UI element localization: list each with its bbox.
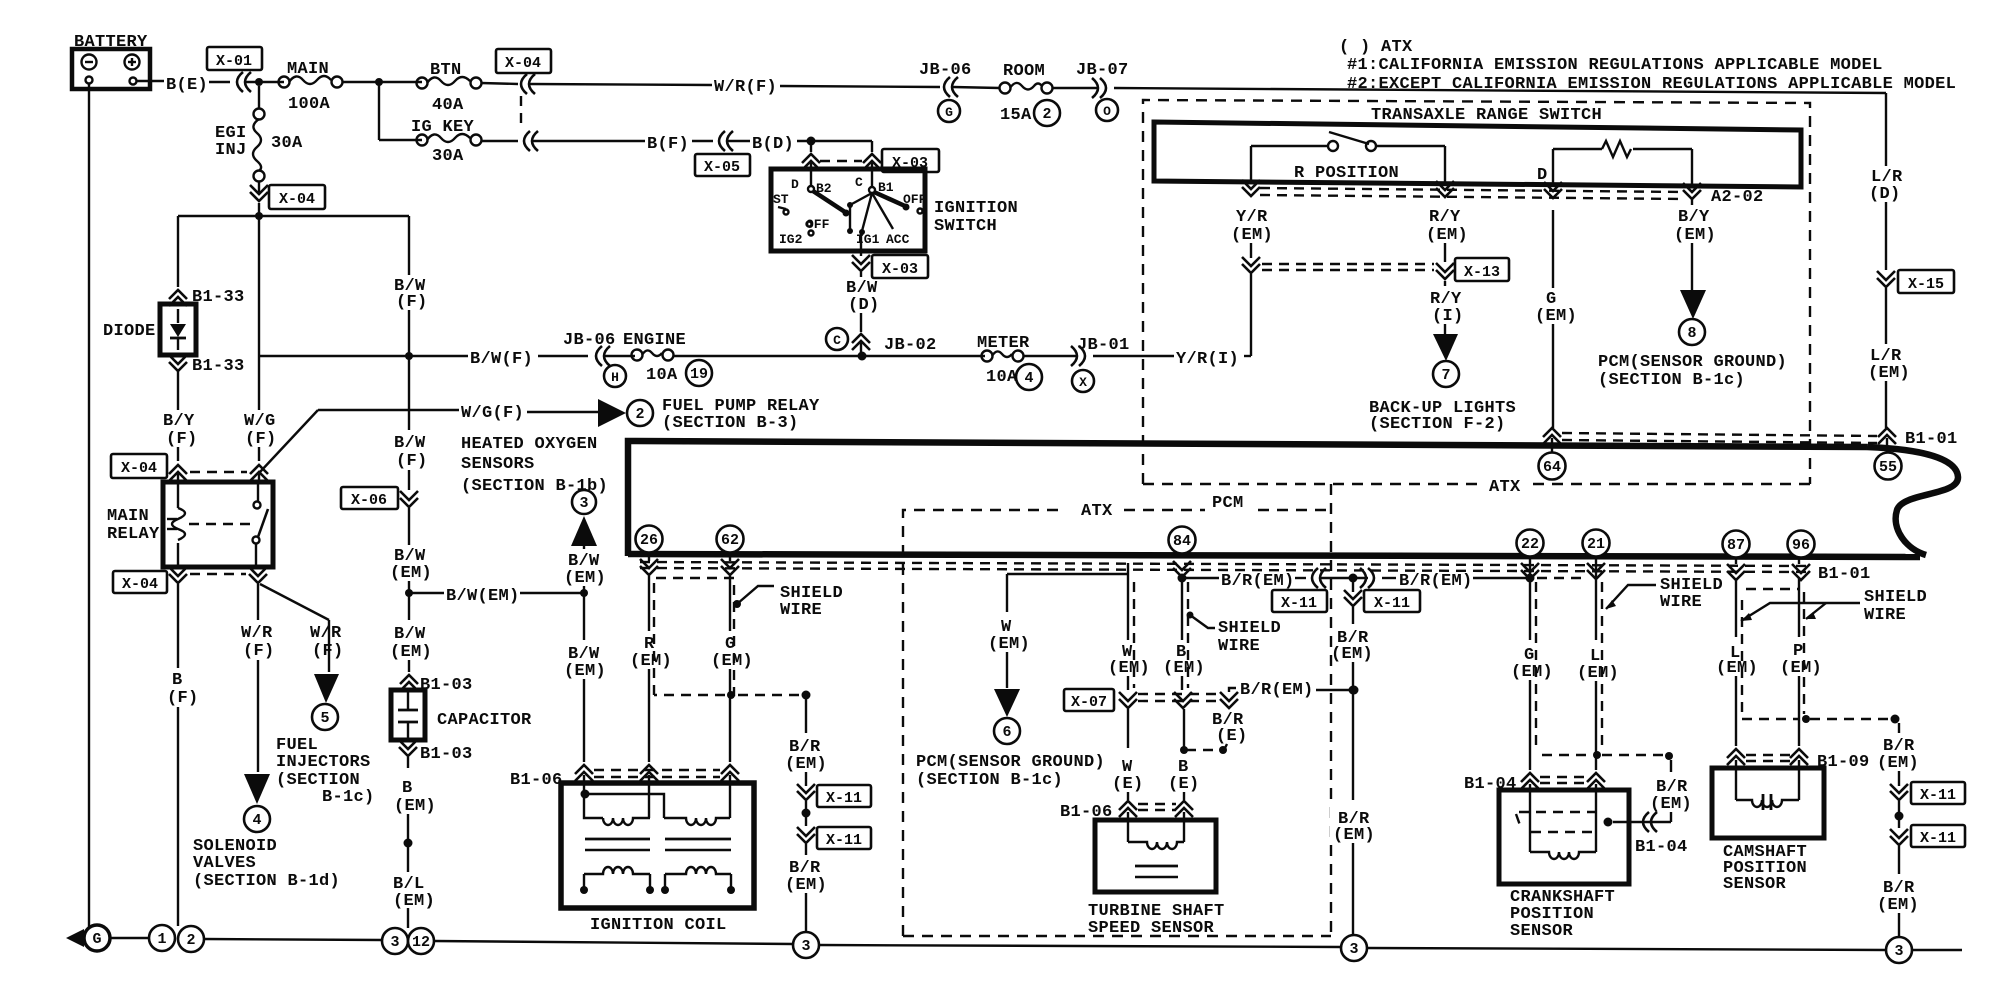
- svg-text:(SECTION B-3): (SECTION B-3): [662, 414, 799, 433]
- svg-text:(EM): (EM): [1868, 364, 1910, 383]
- svg-text:X-07: X-07: [1071, 694, 1107, 711]
- svg-text:SHIELD: SHIELD: [1864, 588, 1927, 607]
- svg-text:19: 19: [690, 366, 708, 383]
- svg-text:B/W(F): B/W(F): [470, 350, 533, 369]
- svg-text:CAPACITOR: CAPACITOR: [437, 711, 532, 730]
- svg-text:WIRE: WIRE: [780, 601, 822, 620]
- svg-text:96: 96: [1792, 537, 1810, 554]
- svg-text:RELAY: RELAY: [107, 525, 160, 544]
- svg-text:R/Y: R/Y: [1429, 208, 1461, 227]
- svg-text:B(D): B(D): [752, 135, 794, 154]
- svg-text:Y/R: Y/R: [1236, 208, 1268, 227]
- svg-text:(EM): (EM): [564, 569, 606, 588]
- svg-text:40A: 40A: [432, 96, 464, 115]
- svg-text:B/W(EM): B/W(EM): [446, 587, 520, 606]
- svg-text:(EM): (EM): [1577, 664, 1619, 683]
- svg-text:#2:EXCEPT CALIFORNIA EMISSION: #2:EXCEPT CALIFORNIA EMISSION REGULATION…: [1347, 75, 1956, 94]
- svg-text:(EM): (EM): [988, 635, 1030, 654]
- svg-text:SENSOR: SENSOR: [1723, 875, 1787, 894]
- svg-text:IG2: IG2: [779, 232, 803, 247]
- svg-text:HEATED OXYGEN: HEATED OXYGEN: [461, 435, 598, 454]
- svg-text:O: O: [1103, 104, 1111, 119]
- svg-text:X-05: X-05: [704, 159, 740, 176]
- svg-text:(F): (F): [166, 430, 198, 449]
- svg-text:(EM): (EM): [1877, 754, 1919, 773]
- svg-text:X-11: X-11: [1920, 830, 1956, 847]
- svg-text:IGNITION: IGNITION: [934, 199, 1018, 218]
- svg-text:B: B: [172, 671, 183, 690]
- svg-text:64: 64: [1543, 459, 1561, 476]
- svg-text:3: 3: [1349, 941, 1358, 958]
- svg-text:7: 7: [1441, 367, 1450, 384]
- svg-text:G: G: [945, 105, 953, 120]
- svg-text:WIRE: WIRE: [1660, 593, 1702, 612]
- svg-text:8: 8: [1687, 325, 1696, 342]
- svg-text:SPEED SENSOR: SPEED SENSOR: [1088, 919, 1215, 938]
- svg-text:B1-06: B1-06: [510, 771, 563, 790]
- svg-text:SHIELD: SHIELD: [1218, 619, 1281, 638]
- svg-text:(EM): (EM): [1650, 795, 1692, 814]
- svg-text:(EM): (EM): [393, 892, 435, 911]
- svg-text:(EM): (EM): [1877, 896, 1919, 915]
- svg-text:ATX: ATX: [1489, 478, 1521, 497]
- svg-text:15A: 15A: [1000, 106, 1032, 125]
- svg-text:10A: 10A: [646, 366, 678, 385]
- svg-text:2: 2: [186, 932, 195, 949]
- svg-text:(EM): (EM): [1331, 645, 1373, 664]
- svg-text:X-04: X-04: [279, 191, 315, 208]
- svg-text:(EM): (EM): [390, 643, 432, 662]
- svg-text:(F): (F): [243, 642, 275, 661]
- svg-text:Y/R(I): Y/R(I): [1176, 350, 1239, 369]
- svg-text:(F): (F): [312, 642, 344, 661]
- svg-text:X-15: X-15: [1908, 276, 1944, 293]
- svg-text:3: 3: [1894, 943, 1903, 960]
- svg-text:B1-04: B1-04: [1635, 838, 1688, 857]
- svg-text:DIODE: DIODE: [103, 322, 156, 341]
- svg-text:#1:CALIFORNIA EMISSION REGULAT: #1:CALIFORNIA EMISSION REGULATIONS APPLI…: [1347, 56, 1883, 75]
- svg-text:X-03: X-03: [882, 261, 918, 278]
- svg-text:A2-02: A2-02: [1711, 188, 1764, 207]
- svg-text:(EM): (EM): [1231, 226, 1273, 245]
- svg-text:(I): (I): [1432, 307, 1464, 326]
- svg-text:X-06: X-06: [351, 492, 387, 509]
- svg-text:D: D: [791, 177, 799, 192]
- svg-text:SENSORS: SENSORS: [461, 455, 535, 474]
- svg-text:84: 84: [1173, 533, 1191, 550]
- svg-text:2: 2: [1042, 106, 1051, 123]
- svg-text:B/R(EM): B/R(EM): [1399, 572, 1473, 591]
- svg-text:VALVES: VALVES: [193, 854, 256, 873]
- svg-text:ENGINE: ENGINE: [623, 331, 686, 350]
- svg-text:(EM): (EM): [390, 564, 432, 583]
- svg-text:6: 6: [1002, 724, 1011, 741]
- svg-text:X-13: X-13: [1464, 264, 1500, 281]
- svg-text:H: H: [611, 370, 619, 385]
- svg-text:PCM: PCM: [1212, 494, 1244, 513]
- svg-text:62: 62: [721, 532, 739, 549]
- svg-text:B(F): B(F): [647, 135, 689, 154]
- svg-text:87: 87: [1727, 537, 1745, 554]
- svg-text:JB-02: JB-02: [884, 336, 937, 355]
- svg-text:B-1c): B-1c): [322, 788, 375, 807]
- svg-text:(E): (E): [1216, 727, 1248, 746]
- svg-text:(EM): (EM): [1108, 659, 1150, 678]
- svg-text:R POSITION: R POSITION: [1294, 164, 1399, 183]
- svg-text:B/W: B/W: [394, 625, 426, 644]
- svg-text:TRANSAXLE RANGE SWITCH: TRANSAXLE RANGE SWITCH: [1371, 106, 1602, 125]
- svg-text:(EM): (EM): [1716, 659, 1758, 678]
- svg-text:B/R(EM): B/R(EM): [1240, 681, 1314, 700]
- svg-text:21: 21: [1587, 536, 1605, 553]
- svg-text:X-11: X-11: [826, 790, 862, 807]
- svg-text:ST: ST: [773, 192, 789, 207]
- svg-text:C: C: [855, 175, 863, 190]
- svg-text:(EM): (EM): [394, 797, 436, 816]
- svg-text:WIRE: WIRE: [1864, 606, 1906, 625]
- svg-text:(F): (F): [396, 293, 428, 312]
- svg-text:IG1: IG1: [856, 232, 880, 247]
- svg-text:SWITCH: SWITCH: [934, 217, 997, 236]
- svg-text:INJ: INJ: [215, 141, 247, 160]
- svg-text:(E): (E): [1168, 775, 1200, 794]
- svg-text:100A: 100A: [288, 95, 331, 114]
- svg-text:(D): (D): [1869, 185, 1901, 204]
- svg-text:B/Y: B/Y: [1678, 208, 1710, 227]
- svg-text:4: 4: [252, 812, 261, 829]
- svg-text:B: B: [402, 779, 413, 798]
- svg-text:B1-03: B1-03: [420, 676, 473, 695]
- svg-text:(EM): (EM): [1535, 307, 1577, 326]
- svg-text:(EM): (EM): [1333, 826, 1375, 845]
- svg-text:(SECTION F-2): (SECTION F-2): [1369, 415, 1506, 434]
- svg-text:B1-03: B1-03: [420, 745, 473, 764]
- svg-text:12: 12: [412, 934, 430, 951]
- svg-text:ROOM: ROOM: [1003, 62, 1045, 81]
- svg-text:W/G(F): W/G(F): [461, 404, 524, 423]
- svg-text:(EM): (EM): [564, 662, 606, 681]
- svg-text:JB-07: JB-07: [1076, 61, 1129, 80]
- svg-text:B/W: B/W: [394, 434, 426, 453]
- svg-text:W/R(F): W/R(F): [714, 78, 777, 97]
- svg-text:(F): (F): [167, 689, 199, 708]
- svg-text:5: 5: [320, 710, 329, 727]
- svg-text:B1-33: B1-33: [192, 357, 245, 376]
- svg-text:X-11: X-11: [1374, 595, 1410, 612]
- svg-text:30A: 30A: [271, 134, 303, 153]
- svg-text:B/R(EM): B/R(EM): [1221, 572, 1295, 591]
- svg-text:W/G: W/G: [244, 412, 276, 431]
- svg-text:X-04: X-04: [505, 55, 541, 72]
- svg-text:X-11: X-11: [1281, 595, 1317, 612]
- svg-text:26: 26: [640, 532, 658, 549]
- svg-text:(EM): (EM): [1780, 659, 1822, 678]
- svg-text:W/R: W/R: [241, 624, 273, 643]
- svg-text:X-11: X-11: [826, 832, 862, 849]
- svg-text:(EM): (EM): [1511, 663, 1553, 682]
- svg-text:SENSOR: SENSOR: [1510, 922, 1574, 941]
- svg-text:(EM): (EM): [785, 755, 827, 774]
- svg-text:X-01: X-01: [216, 53, 252, 70]
- svg-text:2: 2: [635, 406, 644, 423]
- svg-text:ATX: ATX: [1081, 502, 1113, 521]
- svg-text:22: 22: [1521, 536, 1539, 553]
- svg-text:C: C: [833, 333, 841, 348]
- svg-text:(EM): (EM): [1674, 226, 1716, 245]
- svg-text:MAIN: MAIN: [107, 507, 149, 526]
- svg-text:G: G: [92, 931, 101, 948]
- svg-text:(D): (D): [848, 296, 880, 315]
- svg-text:B/Y: B/Y: [163, 412, 195, 431]
- svg-text:X-04: X-04: [122, 576, 158, 593]
- svg-text:W/R: W/R: [310, 624, 342, 643]
- svg-text:(EM): (EM): [630, 652, 672, 671]
- svg-text:JB-06: JB-06: [919, 61, 972, 80]
- svg-text:(SECTION B-1d): (SECTION B-1d): [193, 872, 340, 891]
- svg-text:3: 3: [390, 934, 399, 951]
- svg-text:(F): (F): [396, 452, 428, 471]
- svg-text:(F): (F): [245, 430, 277, 449]
- svg-text:B1-33: B1-33: [192, 288, 245, 307]
- svg-text:55: 55: [1879, 459, 1897, 476]
- svg-text:WIRE: WIRE: [1218, 637, 1260, 656]
- svg-text:(SECTION B-1c): (SECTION B-1c): [916, 771, 1063, 790]
- svg-text:(EM): (EM): [711, 652, 753, 671]
- svg-text:X: X: [1079, 375, 1087, 390]
- svg-text:X-04: X-04: [121, 460, 157, 477]
- svg-text:( ) ATX: ( ) ATX: [1339, 38, 1413, 57]
- svg-text:PCM(SENSOR GROUND): PCM(SENSOR GROUND): [1598, 353, 1787, 372]
- svg-text:4: 4: [1024, 370, 1033, 387]
- svg-text:INJECTORS: INJECTORS: [276, 753, 371, 772]
- svg-text:B(E): B(E): [166, 76, 208, 95]
- svg-text:ACC: ACC: [886, 232, 910, 247]
- svg-text:(EM): (EM): [785, 876, 827, 895]
- svg-text:30A: 30A: [432, 147, 464, 166]
- svg-text:(E): (E): [1112, 775, 1144, 794]
- svg-text:(EM): (EM): [1163, 659, 1205, 678]
- svg-text:X-11: X-11: [1920, 787, 1956, 804]
- svg-text:PCM(SENSOR GROUND): PCM(SENSOR GROUND): [916, 753, 1105, 772]
- svg-text:(SECTION B-1c): (SECTION B-1c): [1598, 371, 1745, 390]
- svg-text:B1-01: B1-01: [1818, 565, 1871, 584]
- svg-text:3: 3: [801, 938, 810, 955]
- svg-text:10A: 10A: [986, 368, 1018, 387]
- svg-text:3: 3: [579, 495, 588, 512]
- svg-text:B1-01: B1-01: [1905, 430, 1958, 449]
- svg-text:(EM): (EM): [1426, 226, 1468, 245]
- svg-text:IGNITION COIL: IGNITION COIL: [590, 916, 727, 935]
- svg-text:1: 1: [157, 931, 166, 948]
